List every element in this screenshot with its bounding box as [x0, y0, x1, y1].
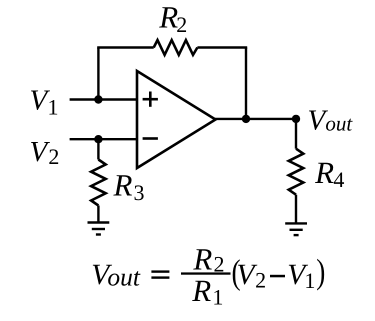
label R2 — [158, 0, 187, 37]
svg-text:3: 3 — [134, 180, 145, 205]
node V1 junction — [94, 95, 102, 103]
node feedback-output junction — [242, 115, 250, 123]
wire feedback top left segment — [97, 46, 154, 48]
svg-text:2: 2 — [255, 268, 266, 293]
svg-text:R: R — [314, 155, 334, 190]
resistor R3 — [91, 160, 106, 206]
label R3 — [113, 167, 145, 205]
wire R4 top lead — [295, 119, 297, 149]
wire V1 input lead — [70, 98, 138, 100]
op-amp noninverting input marker + — [143, 92, 158, 107]
wire feedback top right segment — [197, 46, 247, 48]
formula Vout = (R2/R1)(V2-V1) — [91, 242, 325, 310]
wire feedback left vertical — [97, 48, 99, 100]
node V2 junction — [94, 135, 102, 143]
svg-text:2: 2 — [48, 144, 59, 169]
node Vout junction — [292, 115, 300, 123]
wire feedback right vertical — [245, 48, 247, 119]
wire output — [215, 118, 297, 120]
wire V2 input lead — [70, 138, 138, 140]
svg-text:4: 4 — [333, 167, 344, 192]
ground for R3 — [88, 223, 110, 235]
ground for R4 — [285, 223, 307, 235]
label Vout — [308, 105, 354, 137]
svg-text:1: 1 — [48, 95, 59, 120]
label V1 — [30, 84, 59, 119]
svg-text:R: R — [191, 273, 211, 308]
svg-text:1: 1 — [212, 285, 223, 310]
resistor R4 — [289, 149, 304, 195]
label R4 — [314, 155, 344, 192]
op-amp inverting input marker - — [143, 137, 158, 140]
wire R3 top lead — [97, 139, 99, 159]
svg-text:1: 1 — [304, 268, 315, 293]
op-amp U1 triangle — [137, 71, 216, 168]
svg-text:R: R — [113, 167, 133, 202]
wire R3 bottom lead — [97, 206, 99, 223]
svg-text:R: R — [192, 242, 212, 277]
svg-text:): ) — [316, 252, 325, 291]
svg-text:2: 2 — [176, 12, 187, 37]
svg-text:out: out — [107, 263, 140, 292]
svg-text:out: out — [325, 111, 353, 135]
wire R4 bottom lead — [295, 195, 297, 224]
resistor R2 — [154, 40, 198, 55]
svg-text:R: R — [158, 0, 178, 35]
label V2 — [30, 136, 60, 169]
